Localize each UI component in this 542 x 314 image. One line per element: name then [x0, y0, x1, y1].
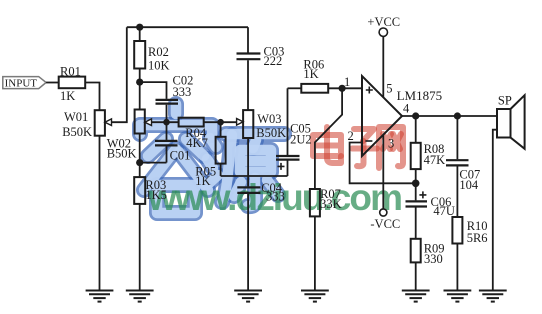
- wire C06 to R09: [415, 207, 417, 239]
- resistor R03: [134, 177, 167, 204]
- svg-text:47K: 47K: [424, 153, 446, 167]
- wire output to speaker: [402, 115, 497, 117]
- svg-text:1: 1: [344, 75, 350, 89]
- svg-text:SP: SP: [498, 93, 512, 107]
- node C02 bottom on wiper wire: [163, 119, 170, 126]
- wire C03 top stub: [247, 27, 249, 52]
- resistor R04: [179, 118, 208, 150]
- ground (W01): [86, 291, 114, 302]
- wire W02 wiper to R04: [152, 121, 179, 123]
- ground (C04): [234, 291, 262, 302]
- wire R08 bottom stub: [415, 169, 417, 183]
- potentiometer W01: [62, 110, 111, 139]
- svg-text:4: 4: [403, 102, 410, 116]
- svg-text:-VCC: -VCC: [370, 217, 400, 231]
- resistor R10: [452, 217, 487, 245]
- wire R09 bottom to ground: [415, 262, 417, 290]
- node top rail / R02 top: [136, 24, 143, 31]
- wire C07 to R10: [456, 166, 458, 217]
- svg-text:33K: 33K: [320, 197, 342, 211]
- capacitor C03: [237, 44, 285, 68]
- wire input to R01: [46, 82, 59, 84]
- svg-text:+VCC: +VCC: [367, 15, 400, 29]
- svg-text:333: 333: [173, 85, 192, 99]
- wire R01 to W01 top: [85, 83, 99, 111]
- resistor R06: [301, 57, 328, 92]
- capacitor C04: [237, 181, 284, 204]
- node output / R08: [412, 112, 419, 119]
- op-amp U1 LM1875: [362, 76, 442, 156]
- svg-text:1K: 1K: [195, 174, 210, 188]
- svg-text:W03: W03: [257, 112, 281, 126]
- wire C07 top stub: [456, 116, 458, 159]
- svg-text:104: 104: [459, 178, 479, 192]
- resistor R08: [411, 142, 445, 169]
- ground (R03): [126, 291, 154, 302]
- svg-text:B50K: B50K: [107, 147, 137, 161]
- svg-text:330: 330: [424, 252, 443, 266]
- svg-text:222: 222: [264, 54, 283, 68]
- svg-text:333: 333: [266, 190, 285, 204]
- wire R03 bottom to ground: [139, 204, 141, 291]
- svg-text:INPUT: INPUT: [5, 77, 38, 89]
- svg-text:5R6: 5R6: [467, 231, 488, 245]
- wire C01 bottom to W02 bottom node: [140, 162, 167, 164]
- resistor R09: [411, 239, 445, 266]
- svg-text:2U2: 2U2: [290, 133, 312, 147]
- svg-text:R01: R01: [60, 65, 81, 79]
- ground (R07): [301, 291, 329, 302]
- wire W01 wiper up to top rail: [112, 27, 127, 122]
- svg-text:B50K: B50K: [62, 125, 92, 139]
- resistor R02: [134, 41, 169, 72]
- ground (R10): [444, 291, 472, 302]
- resistor R05: [195, 137, 225, 188]
- -VCC terminal: [370, 209, 400, 231]
- watermark blue character RONG light pass: [140, 104, 284, 213]
- wire R02 bottom stub: [139, 69, 141, 83]
- watermark blue character RONG outline pass: [140, 104, 284, 213]
- wire +VCC pin5: [382, 37, 384, 98]
- svg-text:2: 2: [348, 129, 354, 143]
- WATERMARK: [140, 104, 403, 218]
- capacitor C01: [155, 122, 190, 162]
- watermark red characters DIAN ZI WANG: [313, 127, 403, 168]
- potentiometer W03: [237, 110, 287, 140]
- ground (speaker): [479, 291, 507, 302]
- svg-text:1K: 1K: [60, 89, 75, 103]
- svg-text:47U: 47U: [433, 204, 455, 218]
- capacitor C05: [276, 88, 312, 176]
- wire C03 bottom to W03 top: [247, 60, 249, 110]
- wire W02 bottom stub: [139, 134, 141, 163]
- wire R10 bottom to ground: [456, 244, 458, 291]
- wire node Y horizontal: [221, 175, 288, 177]
- svg-text:R02: R02: [148, 45, 169, 59]
- wire speaker to ground: [493, 130, 497, 291]
- svg-text:10K: 10K: [148, 58, 170, 72]
- wire R08 top stub: [415, 116, 417, 143]
- svg-text:5: 5: [386, 82, 392, 96]
- wire R04 to W03 wiper: [204, 121, 237, 123]
- svg-text:W01: W01: [64, 110, 88, 124]
- wire R07 bottom to ground: [314, 216, 316, 290]
- wire W02 top stub: [139, 82, 141, 109]
- svg-text:C01: C01: [170, 149, 191, 163]
- wire R05 bottom stub: [220, 164, 222, 176]
- node pin1 / R07 branch: [339, 85, 346, 92]
- input terminal INPUT: [3, 77, 46, 90]
- +VCC terminal: [367, 15, 400, 36]
- wire C04 bottom to ground: [247, 194, 249, 291]
- ground (R09): [402, 291, 430, 302]
- resistor R01: [59, 65, 85, 104]
- node R08/feedback/C06: [412, 180, 420, 188]
- node W02/C01/R03: [136, 159, 143, 166]
- resistor R07: [310, 187, 342, 216]
- svg-text:3: 3: [388, 136, 394, 150]
- capacitor C06: [406, 183, 455, 218]
- capacitor C07: [446, 160, 480, 192]
- potentiometer W02: [107, 110, 152, 161]
- svg-text:1K5: 1K5: [145, 188, 167, 202]
- wire C02 bottom stub: [166, 105, 168, 123]
- node output / C07: [454, 112, 461, 119]
- node R02/W02/C02: [136, 79, 143, 86]
- wire pin1 node down diagonal to R07: [315, 88, 342, 189]
- svg-text:B50K: B50K: [256, 126, 286, 140]
- wire top rail: [127, 26, 248, 28]
- wire -VCC pin3: [382, 135, 384, 209]
- wire C05 top to R06: [288, 87, 302, 89]
- wire to C02 top: [140, 82, 167, 99]
- wire pin2 feedback: [350, 143, 416, 184]
- node R05 top on wiper wire: [217, 119, 224, 126]
- wire R06 to op-amp pin1: [328, 87, 362, 89]
- capacitor C02: [156, 73, 194, 103]
- wire R02 top stub: [139, 27, 141, 41]
- wire W01 bottom to ground: [99, 136, 101, 291]
- wire R03 top stub: [139, 163, 141, 178]
- svg-text:1K: 1K: [303, 67, 318, 81]
- wire W03 bottom stub: [247, 138, 249, 186]
- wire R05 top stub: [220, 122, 222, 137]
- speaker SP: [497, 93, 525, 149]
